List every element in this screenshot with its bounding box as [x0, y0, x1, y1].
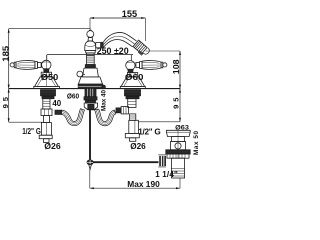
- svg-text:155: 155: [122, 8, 137, 19]
- right bottom tick: [139, 121, 181, 123]
- drain tailpipe: [171, 131, 184, 179]
- horizontal drain rod: [93, 161, 159, 163]
- extension line top (185): [9, 28, 91, 30]
- dimension 155 line: [90, 17, 145, 41]
- column under-deck shank: [84, 89, 97, 103]
- left valve body: [39, 123, 52, 143]
- left bottom tick: [9, 121, 42, 123]
- drain neck: [171, 137, 184, 142]
- svg-text:Ø26: Ø26: [130, 142, 146, 151]
- right handle lever: [136, 61, 167, 70]
- svg-text:1/2" G: 1/2" G: [138, 127, 161, 136]
- spout: [103, 33, 136, 48]
- spout joint ring: [101, 42, 104, 49]
- svg-text:Max 40: Max 40: [101, 90, 108, 111]
- left handle ball: [42, 60, 51, 72]
- column body: [85, 41, 101, 51]
- drain locking nut: [166, 150, 190, 158]
- svg-text:Ø60: Ø60: [67, 91, 79, 100]
- svg-text:1/2" G: 1/2" G: [22, 127, 41, 136]
- pop-up rod: [89, 110, 91, 160]
- svg-text:Max 190: Max 190: [127, 180, 160, 189]
- svg-text:1 1/4": 1 1/4": [155, 170, 178, 179]
- column shaft: [85, 51, 95, 69]
- left hose: [61, 109, 84, 126]
- svg-text:Ø50: Ø50: [41, 73, 59, 82]
- left valve under-deck flange: [41, 90, 56, 99]
- left dimension line 185/95: [8, 29, 10, 123]
- rod clevis at drain: [158, 155, 166, 167]
- hose tee: [84, 103, 97, 110]
- left handle dome: [34, 55, 60, 89]
- pop-up knob: [77, 71, 85, 77]
- Max 190 dimension: [90, 169, 180, 189]
- left valve shank: [41, 99, 62, 123]
- right valve shank: [116, 99, 136, 121]
- right hose: [94, 109, 115, 126]
- right valve body: [125, 120, 139, 141]
- svg-text:185: 185: [1, 45, 10, 61]
- svg-text:Max 50: Max 50: [193, 131, 200, 155]
- spout aerator: [132, 40, 150, 58]
- right handle ball: [126, 61, 135, 73]
- pop-up rod ball joint: [87, 160, 93, 170]
- left handle stem: [41, 72, 51, 77]
- right handle dome: [120, 55, 145, 89]
- right dimension line 108/95: [179, 51, 181, 122]
- svg-text:108: 108: [172, 59, 181, 74]
- dimension 250 +-20 line: [47, 55, 133, 61]
- svg-text:40: 40: [52, 99, 61, 108]
- column finial: [87, 30, 94, 41]
- column skirt: [78, 68, 105, 89]
- svg-text:Ø60: Ø60: [125, 73, 144, 82]
- right handle stem: [127, 73, 137, 77]
- right valve under-deck flange: [125, 90, 141, 99]
- deck line: [9, 88, 181, 90]
- drain body with overflow hole: [171, 141, 186, 149]
- svg-text:Ø26: Ø26: [44, 142, 61, 151]
- left handle lever: [10, 61, 41, 70]
- spout outlet extension line: [146, 50, 181, 52]
- drain flange: [166, 130, 190, 136]
